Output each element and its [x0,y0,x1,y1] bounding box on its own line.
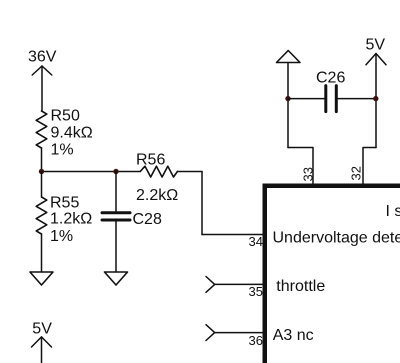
svg-text:1%: 1% [51,142,74,159]
svg-text:throttle: throttle [276,278,325,295]
svg-text:9.4kΩ: 9.4kΩ [51,125,93,142]
svg-text:C28: C28 [133,211,162,228]
svg-text:R55: R55 [50,195,79,212]
node junction C26 right [373,96,378,101]
svg-text:R56: R56 [136,151,165,168]
resistor R55 [36,172,92,272]
ground right of C28 [105,272,128,285]
svg-text:32: 32 [349,166,364,180]
ground up-triangle (pin 33 net) [277,51,301,63]
wire jog pin 33 [288,148,313,184]
svg-text:1%: 1% [50,228,73,245]
wire R50 to rail [41,148,43,172]
ground left [30,272,53,285]
svg-text:34: 34 [249,234,263,249]
svg-text:35: 35 [249,284,263,299]
capacitor C28 [102,172,162,272]
power symbol 36V [28,49,57,112]
resistor R56 [136,151,178,204]
power symbol 5V bottom left [32,321,53,363]
chevron pin 36 [206,325,263,348]
power symbol 5V top right [366,37,387,148]
svg-text:Undervoltage detect: Undervoltage detect [273,230,400,247]
node junction C26 left [285,96,290,101]
wire jog pin 32 [363,148,376,184]
svg-text:36: 36 [249,333,263,348]
svg-text:C26: C26 [316,70,345,87]
svg-text:R50: R50 [51,108,80,125]
svg-text:5V: 5V [32,321,52,338]
wire to pin 34 [202,234,263,236]
svg-text:A3 nc: A3 nc [273,327,314,344]
IC body U? [265,186,400,363]
node junction left [39,169,44,174]
node junction right [113,169,118,174]
wire R56 to corner [177,171,202,173]
wire triangle down [287,63,289,148]
svg-text:5V: 5V [366,37,386,54]
svg-text:33: 33 [301,167,316,181]
resistor R50 [36,108,93,159]
svg-text:2.2kΩ: 2.2kΩ [136,187,178,204]
svg-text:I sense: I sense [386,203,400,220]
wire rail [42,171,141,173]
svg-text:1.2kΩ: 1.2kΩ [50,211,92,228]
wire corner down [201,172,203,235]
chevron pin 35 [206,277,263,300]
capacitor C26 [288,70,376,112]
svg-text:36V: 36V [28,49,57,66]
